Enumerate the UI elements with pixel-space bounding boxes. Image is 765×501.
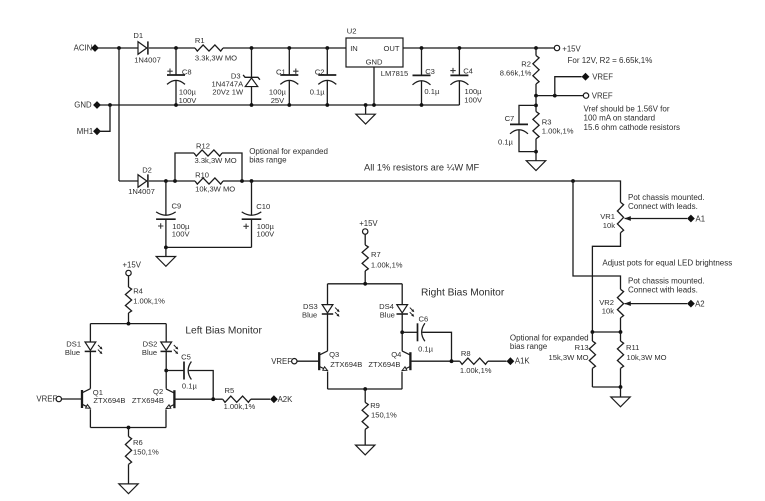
node A2 terminal (687, 300, 695, 308)
svg-text:R3: R3 (542, 117, 552, 126)
resistor R8 (460, 358, 488, 364)
resistor R9 (364, 389, 366, 402)
node A1K terminal (507, 357, 515, 365)
junction C8 bottom (174, 103, 178, 107)
junction at ACIN branch (117, 46, 121, 50)
junction D3 bottom (250, 103, 254, 107)
node A1 terminal (687, 215, 695, 223)
svg-text:C3: C3 (425, 67, 435, 76)
junction C4 top (458, 46, 462, 50)
svg-text:ACIN: ACIN (74, 44, 93, 53)
svg-text:R2: R2 (521, 60, 531, 69)
junction C9 ground (164, 246, 168, 250)
svg-text:1.00k,1%: 1.00k,1% (542, 127, 574, 136)
zener diode D3 (251, 48, 253, 77)
transistor Q2 (173, 390, 175, 408)
svg-text:1N4007: 1N4007 (128, 187, 155, 196)
svg-text:For 12V, R2 = 6.65k,1%: For 12V, R2 = 6.65k,1% (568, 56, 653, 65)
svg-text:A2: A2 (695, 300, 705, 309)
LED DS4 (401, 284, 403, 305)
junction C1 top (287, 46, 291, 50)
svg-text:Q3: Q3 (329, 350, 339, 359)
wire R13 R11 top rail (592, 331, 620, 333)
svg-text:100V: 100V (172, 230, 191, 239)
capacitor C2 (326, 48, 328, 75)
capacitor C9 (165, 181, 167, 215)
svg-text:Q4: Q4 (391, 350, 401, 359)
svg-text:VREF: VREF (592, 92, 613, 101)
wire VR2 bottom (620, 318, 622, 332)
wire VR1 bottom to R13 node (592, 233, 620, 332)
wire R1 to U2 IN (223, 47, 346, 49)
svg-text:ZTX694B: ZTX694B (93, 396, 125, 405)
svg-text:bias range: bias range (510, 342, 548, 351)
ground below R6 (119, 484, 138, 494)
svg-text:10k,3W MO: 10k,3W MO (627, 353, 667, 362)
svg-text:Right Bias Monitor: Right Bias Monitor (421, 287, 505, 298)
svg-text:1N4007: 1N4007 (134, 55, 161, 64)
svg-text:IN: IN (350, 44, 358, 53)
junction R11 top (619, 330, 623, 334)
node VREF output diamond (582, 73, 590, 81)
svg-text:Left Bias Monitor: Left Bias Monitor (185, 325, 262, 336)
transistor Q4 (409, 352, 411, 370)
ground rail GND (97, 104, 459, 106)
terminal +15V right (363, 229, 368, 234)
junction C7 bottom (534, 150, 538, 154)
svg-text:Q2: Q2 (153, 387, 163, 396)
capacitor C4 (458, 48, 460, 75)
node A2K terminal (270, 395, 278, 403)
svg-text:Pot chassis mounted.: Pot chassis mounted. (628, 193, 704, 202)
svg-text:R12: R12 (196, 141, 210, 150)
LED DS1 (89, 324, 91, 342)
svg-text:VREF: VREF (271, 357, 292, 366)
svg-text:1.00k,1%: 1.00k,1% (460, 366, 492, 375)
resistor R5 (223, 396, 251, 402)
svg-text:A1: A1 (696, 214, 706, 223)
wire ACIN branch down to D2 row (118, 48, 120, 181)
svg-text:0.1µ: 0.1µ (182, 381, 198, 390)
svg-text:R5: R5 (225, 386, 235, 395)
svg-text:C7: C7 (505, 114, 515, 123)
svg-text:VREF: VREF (592, 73, 613, 82)
svg-text:C8: C8 (182, 68, 192, 77)
svg-text:C2: C2 (315, 68, 325, 77)
junction C8 top (174, 46, 178, 50)
svg-text:ZTX694B: ZTX694B (368, 360, 400, 369)
svg-text:R7: R7 (371, 250, 381, 259)
wire ACIN to D1 (95, 47, 138, 49)
ground below C9 (165, 247, 167, 256)
resistor R10 (195, 178, 223, 184)
svg-text:C4: C4 (463, 66, 473, 75)
svg-text:10k: 10k (602, 307, 614, 316)
terminal +15V main (554, 45, 559, 50)
junction C6 tap (400, 330, 404, 334)
svg-text:C10: C10 (256, 202, 270, 211)
junction R6 top (127, 426, 131, 430)
svg-text:Connect with leads.: Connect with leads. (628, 286, 698, 295)
capacitor C8 (175, 48, 177, 75)
node GND terminal (93, 101, 101, 109)
ground symbol below U2 (365, 105, 367, 114)
VR2 wiper wire (625, 303, 687, 305)
svg-text:All 1% resistors are ¼W MF: All 1% resistors are ¼W MF (364, 163, 480, 173)
junction C5 bottom (211, 397, 215, 401)
svg-text:D1: D1 (133, 31, 143, 40)
junction C6 bottom (450, 359, 454, 363)
capacitor C10 (251, 181, 253, 215)
junction C5 tap (164, 369, 168, 373)
svg-text:10k: 10k (603, 221, 615, 230)
wire left monitor top rail (90, 323, 166, 325)
junction R7 bottom (363, 282, 367, 286)
svg-text:100V: 100V (257, 229, 276, 238)
wire right monitor bottom rail (328, 388, 403, 390)
svg-text:C5: C5 (181, 352, 191, 361)
transistor Q3 (318, 352, 320, 370)
regulator U2 box (346, 38, 403, 67)
junction MH1 on GND rail (108, 103, 112, 107)
resistor R1 (195, 45, 223, 51)
svg-text:Blue: Blue (302, 310, 317, 319)
svg-text:Adjust pots for equal LED brig: Adjust pots for equal LED brightness (602, 259, 732, 268)
junction D3 top (250, 46, 254, 50)
junction C1 bottom (287, 103, 291, 107)
wire R5 to A2K (251, 398, 270, 400)
svg-text:GND: GND (366, 58, 383, 67)
svg-text:3.3k,3W MO: 3.3k,3W MO (195, 156, 237, 165)
svg-text:C9: C9 (172, 202, 182, 211)
wire to D2 (119, 180, 138, 182)
svg-text:+15V: +15V (123, 260, 142, 269)
LED DS3 (327, 284, 329, 305)
svg-text:0.1µ: 0.1µ (424, 87, 440, 96)
ground below R9 (356, 445, 375, 455)
capacitor C5 (166, 370, 184, 372)
junction R4 bottom (127, 322, 131, 326)
terminal VREF output circle (583, 93, 588, 98)
svg-text:R6: R6 (133, 438, 143, 447)
node ACIN terminal (91, 44, 99, 52)
svg-text:R10: R10 (195, 171, 209, 180)
svg-text:Blue: Blue (380, 310, 395, 319)
svg-text:25V: 25V (271, 96, 285, 105)
resistor R12 with bracket (175, 153, 194, 181)
svg-text:8.66k,1%: 8.66k,1% (500, 69, 532, 78)
svg-text:VREF: VREF (36, 395, 57, 404)
wire U2 GND pin down (373, 67, 375, 105)
svg-text:LM7815: LM7815 (381, 69, 408, 78)
junction C3 bottom (420, 103, 424, 107)
svg-text:MH1: MH1 (77, 127, 93, 136)
resistor R11 (620, 332, 622, 341)
svg-text:R8: R8 (461, 349, 471, 358)
junction VREF node (534, 94, 538, 98)
wire R8 to A1K (488, 360, 507, 362)
wire VREF to Q3 base (297, 360, 319, 362)
svg-text:Blue: Blue (142, 348, 157, 357)
wire C9 C10 bottoms (166, 246, 252, 248)
diode D2 (138, 175, 147, 188)
junction VREF branch (553, 94, 557, 98)
junction R13 top (591, 330, 595, 334)
capacitor C3 (421, 48, 423, 75)
wire Q2 base to R5 (174, 398, 222, 400)
svg-text:150,1%: 150,1% (371, 411, 397, 420)
svg-text:D2: D2 (142, 166, 152, 175)
junction VR2 branch (571, 179, 575, 183)
junction C9 top (164, 179, 168, 183)
svg-text:R1: R1 (195, 36, 205, 45)
svg-text:C1: C1 (276, 68, 286, 77)
junction C2 top (325, 46, 329, 50)
svg-text:Vref should be 1.56V for: Vref should be 1.56V for (584, 105, 670, 114)
resistor R13 (591, 332, 593, 341)
resistor R4 (128, 276, 130, 287)
svg-text:1.00k,1%: 1.00k,1% (371, 260, 403, 269)
svg-text:0.1µ: 0.1µ (498, 137, 514, 146)
svg-text:100V: 100V (179, 96, 198, 105)
svg-text:R13: R13 (575, 343, 589, 352)
wire VR2 branch (573, 181, 621, 289)
junction U2 GND pin (372, 103, 376, 107)
wire Q4 base to R8 (410, 360, 459, 362)
junction C3 top (420, 46, 424, 50)
resistor R3 (535, 96, 537, 112)
svg-text:ZTX694B: ZTX694B (132, 396, 164, 405)
resistor R7 (364, 234, 366, 245)
LED DS2 (165, 324, 167, 342)
capacitor C7 (519, 105, 536, 124)
svg-text:OUT: OUT (383, 44, 399, 53)
VR1 wiper wire (625, 218, 687, 220)
svg-text:VR1: VR1 (600, 212, 615, 221)
svg-text:U2: U2 (347, 27, 357, 36)
capacitor C1 (288, 48, 290, 75)
junction R2 top (534, 46, 538, 50)
svg-text:R9: R9 (370, 401, 380, 410)
svg-text:150,1%: 150,1% (133, 448, 159, 457)
potentiometer VR1 (617, 202, 623, 233)
svg-text:0.1µ: 0.1µ (310, 88, 326, 97)
transistor Q1 (81, 390, 83, 408)
svg-text:R11: R11 (626, 343, 639, 352)
wire left monitor bottom rail (90, 427, 166, 429)
resistor R6 (128, 428, 130, 437)
junction R9 top (363, 387, 367, 391)
svg-text:A1K: A1K (515, 357, 531, 366)
svg-text:Connect with leads.: Connect with leads. (628, 202, 698, 211)
junction R12 left (173, 179, 177, 183)
svg-text:1.00k,1%: 1.00k,1% (133, 296, 165, 305)
junction C7 top (534, 104, 538, 108)
wire VREF to Q1 base (62, 398, 83, 400)
svg-text:3.3k,3W MO: 3.3k,3W MO (195, 53, 237, 62)
svg-text:100V: 100V (464, 95, 483, 104)
ground below R11 (620, 387, 622, 397)
svg-text:GND: GND (74, 101, 92, 110)
ground below R3 (526, 161, 545, 171)
resistor R2 (535, 48, 537, 56)
capacitor C6 (402, 331, 417, 333)
svg-text:bias range: bias range (249, 156, 287, 165)
terminal +15V left (126, 270, 131, 275)
svg-text:Blue: Blue (65, 348, 80, 357)
svg-text:15k,3W MO: 15k,3W MO (549, 353, 589, 362)
svg-text:+15V: +15V (359, 219, 378, 228)
svg-text:A2K: A2K (278, 395, 294, 404)
svg-text:C6: C6 (419, 314, 429, 323)
potentiometer VR2 (617, 289, 623, 318)
svg-text:10k,3W MO: 10k,3W MO (195, 184, 235, 193)
svg-text:0.1µ: 0.1µ (418, 345, 434, 354)
svg-text:20Vz 1W: 20Vz 1W (212, 87, 244, 96)
svg-text:1.00k,1%: 1.00k,1% (224, 402, 256, 411)
junction ground stub (364, 103, 368, 107)
svg-text:R4: R4 (133, 287, 143, 296)
junction C10 top (250, 179, 254, 183)
svg-text:100 mA on standard: 100 mA on standard (584, 114, 656, 123)
wire VREF node (536, 95, 583, 97)
wire R13 R11 bottom rail (592, 386, 620, 388)
wire R10 to VR1 (223, 181, 621, 202)
junction ground node (619, 385, 623, 389)
wire to VREF diamond (555, 77, 582, 96)
wire U2 OUT to +15V (403, 47, 554, 49)
junction R12 right (240, 179, 244, 183)
svg-text:ZTX694B: ZTX694B (330, 360, 362, 369)
svg-text:Pot chassis mounted.: Pot chassis mounted. (628, 276, 704, 285)
wire D1 to R1 (149, 47, 195, 49)
diode D1 (138, 42, 147, 55)
wire right monitor top rail (328, 283, 403, 285)
terminal VREF right (292, 359, 297, 364)
wire D2 to R10 (149, 180, 195, 182)
node MH1 terminal (93, 127, 101, 135)
svg-text:15.6 ohm cathode resistors: 15.6 ohm cathode resistors (584, 123, 681, 132)
svg-text:+15V: +15V (562, 44, 581, 53)
junction C2 bottom (325, 103, 329, 107)
terminal VREF left (56, 396, 61, 401)
